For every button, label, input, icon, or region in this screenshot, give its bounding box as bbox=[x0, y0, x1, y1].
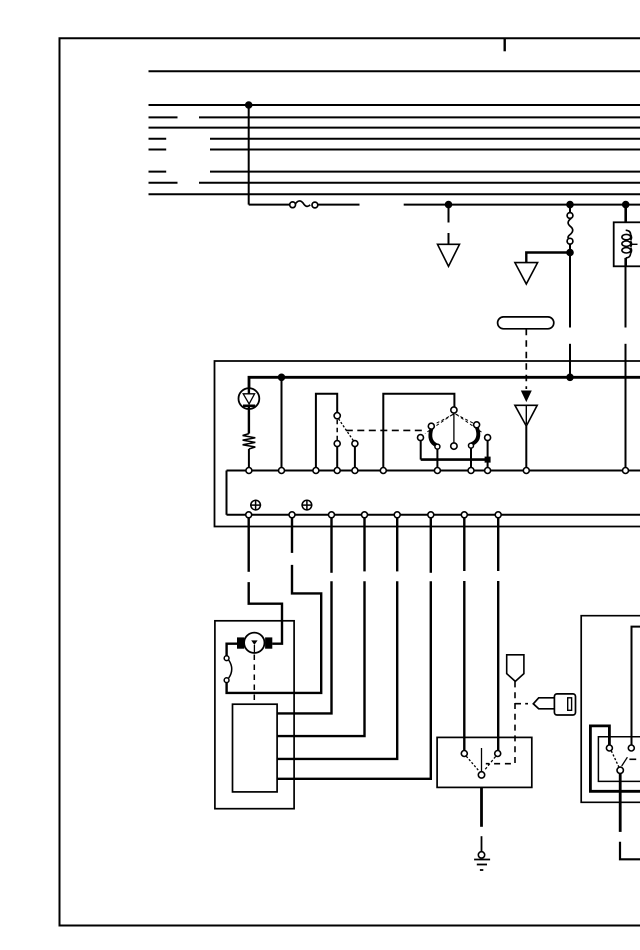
wire bus line 9 bbox=[149, 193, 640, 195]
ignition left wiper end contact bbox=[435, 444, 440, 449]
switch S2 common contact bbox=[478, 772, 484, 778]
ignition contact c4 bbox=[474, 422, 480, 428]
wire drop at node B bbox=[569, 205, 571, 213]
wire drop at node A bbox=[448, 205, 450, 223]
wire bus line 4 bbox=[149, 127, 640, 129]
switch S2 contact right bbox=[495, 751, 501, 757]
wire to fuse bbox=[249, 204, 290, 206]
connector arrow 2 (open triangle) bbox=[515, 263, 538, 284]
motor box M1 bbox=[215, 621, 294, 809]
wire below relay coil bbox=[624, 258, 627, 266]
wire B upper bbox=[291, 518, 293, 553]
ignition switch rotor rays bbox=[425, 414, 484, 434]
junction dot node B on internal bus bbox=[567, 375, 573, 381]
pentagon connector (key cylinder) bbox=[507, 655, 524, 682]
lock switch contact right bbox=[628, 745, 634, 751]
motor commutator mark bbox=[251, 640, 257, 645]
diode triangle bbox=[243, 394, 254, 404]
wire E upper bbox=[396, 518, 398, 572]
wire exiting right bbox=[620, 842, 640, 860]
wire relay to control box lower bbox=[625, 344, 627, 468]
wire S1 contact a to terminal bbox=[336, 447, 338, 468]
connector pin bus bbox=[227, 514, 640, 516]
switch S1 contact a bbox=[334, 441, 340, 447]
diode wire in bbox=[248, 388, 250, 394]
wire D upper bbox=[363, 518, 365, 572]
fuse F2 (vertical) bbox=[567, 213, 573, 245]
wire from fuse bbox=[318, 204, 360, 206]
ground G1 bbox=[474, 860, 490, 871]
dashed wire from capsule bbox=[525, 329, 527, 389]
wire drop at node C bbox=[624, 205, 627, 223]
wire D lower bbox=[277, 581, 364, 736]
switch S2 plunger bbox=[481, 748, 483, 771]
wire below lock box bbox=[619, 773, 622, 832]
wire from internal bus junction to terminal bbox=[281, 377, 283, 467]
wire bus line 8 bbox=[199, 182, 640, 184]
relay coil tap bbox=[631, 243, 638, 245]
motor right brush bbox=[265, 637, 272, 648]
ignition contact c3 (center) bbox=[451, 443, 457, 449]
junction node B bbox=[567, 202, 573, 208]
connector capsule (pill) bbox=[498, 317, 554, 329]
wire bus line 8 stub bbox=[149, 182, 178, 184]
ignition switch rotor stem bbox=[453, 413, 455, 443]
dashed link to key bbox=[515, 703, 528, 705]
switch box (middle bottom) bbox=[437, 737, 532, 787]
bolt symbol 2 bbox=[301, 500, 312, 511]
top border tick mark bbox=[504, 38, 506, 51]
switch S1 dashed plunger bbox=[336, 420, 338, 440]
connector arrow 3 (open triangle) bbox=[515, 405, 537, 426]
inline connector upper bbox=[224, 656, 229, 661]
terminal riser bbox=[226, 471, 228, 515]
wire bus line 3 bbox=[199, 116, 640, 118]
wire vertical feed from bus 2 bbox=[248, 105, 250, 205]
key symbol bbox=[533, 694, 575, 715]
ignition switch feed frame bbox=[383, 394, 454, 468]
relay box (top right) bbox=[614, 222, 640, 266]
wire right wiper to terminal bbox=[470, 448, 472, 468]
wire bus line 2 bbox=[149, 104, 640, 106]
wire continuing down from node D bbox=[569, 253, 571, 328]
switch S1 frame (pi shape) bbox=[316, 394, 337, 468]
diode cathode bar bbox=[243, 404, 255, 407]
wire resistor to terminal bbox=[248, 449, 250, 468]
wire segment to control box bbox=[569, 344, 571, 378]
combination switch box (big box) bbox=[215, 361, 640, 527]
wire bus line 1 bbox=[149, 70, 640, 72]
ignition contact c5 bbox=[485, 435, 491, 441]
ignition right wiper arc bbox=[471, 428, 478, 445]
wire c2 down bbox=[420, 441, 422, 460]
junction node C bbox=[623, 202, 629, 208]
switch S2 contact left bbox=[461, 751, 467, 757]
wire bus line 7 bbox=[210, 171, 640, 173]
motor dashed link bbox=[253, 655, 255, 705]
switch S1 blade bbox=[339, 419, 354, 441]
indicator diode D1 (circle) bbox=[239, 388, 260, 409]
internal feed bus (thick) bbox=[249, 377, 640, 388]
motor commutator stem bbox=[253, 645, 255, 653]
dashed link S1 to ignition switch bbox=[346, 429, 425, 431]
wire E lower bbox=[277, 581, 397, 759]
inline connector lower bbox=[224, 678, 229, 683]
terminal circles row 1 bbox=[246, 468, 629, 474]
bolt symbol 1 bbox=[250, 500, 261, 511]
wire bus line 5 stub bbox=[149, 138, 167, 140]
wire left brush bbox=[227, 644, 237, 656]
wire bus line 6 stub bbox=[149, 149, 167, 151]
motor left brush bbox=[237, 637, 244, 648]
switch S2 right blade bbox=[485, 757, 496, 770]
wire stub above connector arrow bbox=[448, 233, 450, 244]
wire left wiper to terminal bbox=[436, 449, 438, 468]
lock switch right blade stroke bbox=[622, 757, 628, 766]
wire relay to control box upper bbox=[625, 266, 627, 327]
page frame top border bbox=[59, 37, 640, 39]
relay coil L1 bbox=[622, 230, 632, 258]
wire G upper bbox=[463, 518, 465, 571]
ignition switch rotor contact bbox=[451, 407, 457, 413]
wire c5 to terminal bbox=[487, 441, 489, 468]
ground terminal circle bbox=[478, 852, 484, 858]
wire G lower bbox=[463, 581, 465, 751]
ignition contact c2 bbox=[418, 435, 424, 441]
wire bus line 5 bbox=[210, 138, 640, 140]
motor M1 body bbox=[244, 633, 264, 653]
wire A lower to motor bbox=[249, 582, 282, 644]
control unit box (in motor assembly) bbox=[233, 704, 278, 792]
line inside triangle bbox=[525, 405, 527, 424]
ignition left wiper arc bbox=[430, 429, 437, 446]
ignition contact c1 bbox=[428, 423, 434, 429]
wire below fuse F2 bbox=[569, 244, 571, 252]
junction dot on internal bus bbox=[279, 375, 285, 381]
page frame left border bbox=[59, 38, 61, 927]
wire S1 contact b to terminal bbox=[354, 447, 356, 468]
inline connector arc bbox=[229, 660, 232, 678]
thick link bar bbox=[421, 458, 488, 461]
wire bus line 3 stub bbox=[149, 116, 178, 118]
wire H upper bbox=[497, 518, 499, 571]
junction node D bbox=[567, 250, 573, 256]
wire to ground bbox=[481, 836, 483, 851]
wire below switch box bbox=[480, 787, 483, 826]
wire feed segment right bbox=[404, 204, 640, 206]
wire F lower bbox=[277, 581, 431, 779]
page frame bottom border bbox=[59, 925, 640, 927]
dashed wire pentagon to switch bbox=[486, 681, 515, 763]
ignition right wiper end contact bbox=[469, 443, 474, 448]
switch S1 contact b bbox=[352, 441, 358, 447]
switch S1 pivot contact bbox=[334, 413, 340, 419]
lock switch contact left bbox=[606, 745, 612, 751]
wire C upper bbox=[330, 518, 332, 573]
lock switch dash mark bbox=[629, 758, 636, 760]
arrowhead (filled) bbox=[522, 391, 531, 401]
wire branch to connector arrow 2 bbox=[526, 253, 570, 263]
lock box (bottom right) bbox=[581, 616, 640, 803]
resistor R1 (zigzag) bbox=[243, 434, 256, 449]
junction dot on bus line 2 bbox=[246, 102, 252, 108]
thick wire L in lock box bbox=[590, 726, 640, 791]
switch S2 left blade bbox=[466, 756, 479, 771]
lock switch inner box bbox=[598, 737, 640, 782]
lock switch common contact bbox=[617, 767, 623, 773]
wire diode to resistor bbox=[248, 406, 250, 434]
wire C lower bbox=[277, 581, 331, 713]
lock switch left blade bbox=[611, 751, 619, 767]
wire from right into lock box bbox=[632, 627, 640, 745]
wire B lower bbox=[227, 565, 322, 693]
wire bus line 6 bbox=[210, 149, 640, 151]
wire H lower bbox=[497, 581, 499, 751]
junction node A bbox=[446, 202, 452, 208]
wire A upper bbox=[247, 518, 249, 572]
wire from arrow 3 to terminal bbox=[525, 426, 527, 468]
junction square bbox=[485, 457, 491, 463]
terminal circles row 2 (connector pins) bbox=[246, 512, 502, 518]
connector arrow (open triangle) bbox=[438, 244, 460, 266]
fuse F1 bbox=[290, 201, 318, 208]
wire bus line 7 stub bbox=[149, 171, 167, 173]
wire F upper bbox=[430, 518, 432, 573]
internal terminal bus bbox=[227, 470, 640, 472]
